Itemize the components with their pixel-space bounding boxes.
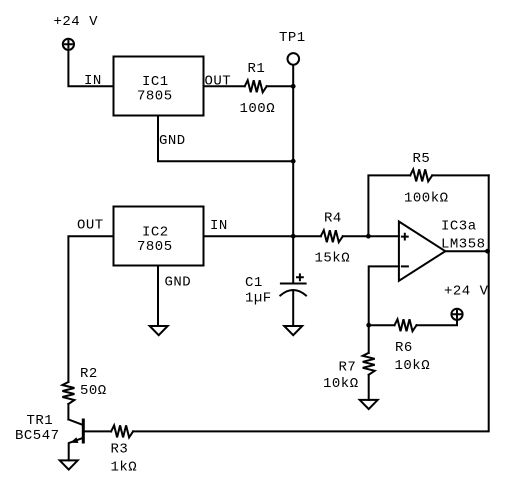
- svg-text:+24 V: +24 V: [444, 284, 489, 300]
- svg-text:R3: R3: [111, 442, 129, 458]
- svg-text:R4: R4: [324, 211, 342, 227]
- wire node to R6: [369, 324, 395, 326]
- wire supply to IC1 IN: [68, 50, 113, 86]
- svg-text:R7: R7: [339, 360, 357, 376]
- svg-text:OUT: OUT: [77, 218, 104, 234]
- svg-text:10kΩ: 10kΩ: [395, 358, 431, 374]
- wire R3 to right edge, up to op-amp output: [133, 175, 489, 431]
- svg-text:10kΩ: 10kΩ: [323, 376, 359, 392]
- svg-text:7805: 7805: [137, 239, 173, 255]
- wire R5 to right vertical: [432, 174, 489, 176]
- node junction R6/R7: [366, 323, 371, 328]
- op-amp - input wire down to R6/R7 node: [369, 266, 399, 325]
- svg-text:GND: GND: [165, 275, 192, 291]
- wire C1 to ground: [292, 292, 294, 327]
- svg-text:R6: R6: [395, 340, 413, 356]
- op-amp U IC3a triangle: [399, 222, 445, 281]
- wire R6 to +24V supply: [417, 320, 458, 325]
- power symbol +24V top-left: [63, 39, 74, 50]
- wire IC2 IN to node: [204, 235, 293, 237]
- transistor Q TR1 (NPN BC547): [68, 419, 83, 461]
- svg-text:7805: 7805: [137, 89, 173, 105]
- resistor R3: [111, 425, 133, 437]
- svg-text:R1: R1: [248, 61, 266, 77]
- ground under C1: [284, 326, 302, 335]
- resistor R4: [321, 230, 343, 242]
- svg-text:IN: IN: [210, 218, 228, 234]
- ground under IC2: [150, 326, 168, 335]
- ground under R7: [360, 400, 378, 409]
- resistor R1: [245, 80, 267, 92]
- svg-text:1kΩ: 1kΩ: [111, 460, 138, 476]
- svg-text:IN: IN: [84, 73, 102, 89]
- resistor R7: [363, 353, 375, 375]
- op-amp output wire: [445, 250, 488, 252]
- svg-text:1µF: 1µF: [245, 291, 272, 307]
- node junction main vertical / R4: [291, 234, 296, 239]
- svg-text:BC547: BC547: [15, 428, 60, 444]
- wire R2 to collector: [67, 404, 69, 419]
- node junction GND/main vertical: [291, 159, 296, 164]
- regulator IC1 box: [114, 57, 204, 116]
- IC1 GND wire: [158, 116, 293, 161]
- resistor R5: [410, 169, 432, 181]
- node junction output/right vertical: [485, 249, 490, 254]
- svg-text:+24 V: +24 V: [54, 14, 99, 30]
- svg-text:15kΩ: 15kΩ: [315, 251, 351, 267]
- svg-text:GND: GND: [159, 133, 186, 149]
- op-amp - input marking: [402, 265, 408, 267]
- svg-text:100kΩ: 100kΩ: [404, 191, 449, 207]
- power symbol +24V right: [451, 309, 462, 320]
- wire R4 to op-amp + input: [343, 235, 399, 237]
- wire IC2 OUT left and down to R2: [68, 236, 113, 382]
- regulator IC2 box: [114, 207, 204, 266]
- svg-text:IC3a: IC3a: [441, 219, 477, 235]
- resistor R6: [395, 319, 417, 331]
- svg-text:TR1: TR1: [27, 413, 54, 429]
- wire IC1 OUT to R1: [204, 85, 245, 87]
- capacitor C1 (polarized): [280, 274, 306, 295]
- svg-text:50Ω: 50Ω: [80, 383, 107, 399]
- feedback wire to R5: [368, 175, 410, 236]
- testpoint TP1 circle: [288, 53, 300, 65]
- node junction at R1/TP1: [291, 84, 296, 89]
- svg-text:LM358: LM358: [441, 237, 486, 253]
- wire R1 to node: [267, 85, 294, 87]
- svg-text:R5: R5: [413, 151, 431, 167]
- ground under TR1 emitter: [60, 460, 78, 469]
- wire node to R7: [368, 325, 370, 353]
- wire R7 to ground: [368, 375, 370, 400]
- svg-text:C1: C1: [245, 275, 263, 291]
- main vertical wire TP1 to C1: [292, 65, 294, 284]
- svg-text:TP1: TP1: [279, 30, 306, 46]
- svg-text:R2: R2: [80, 366, 98, 382]
- wire base to R3: [85, 430, 111, 432]
- node junction R4/R5 feedback: [366, 234, 371, 239]
- resistor R2: [62, 382, 74, 404]
- op-amp + input marking: [402, 234, 408, 240]
- IC2 GND pin wire: [157, 266, 159, 326]
- wire node to R4: [293, 235, 321, 237]
- svg-text:100Ω: 100Ω: [240, 101, 276, 117]
